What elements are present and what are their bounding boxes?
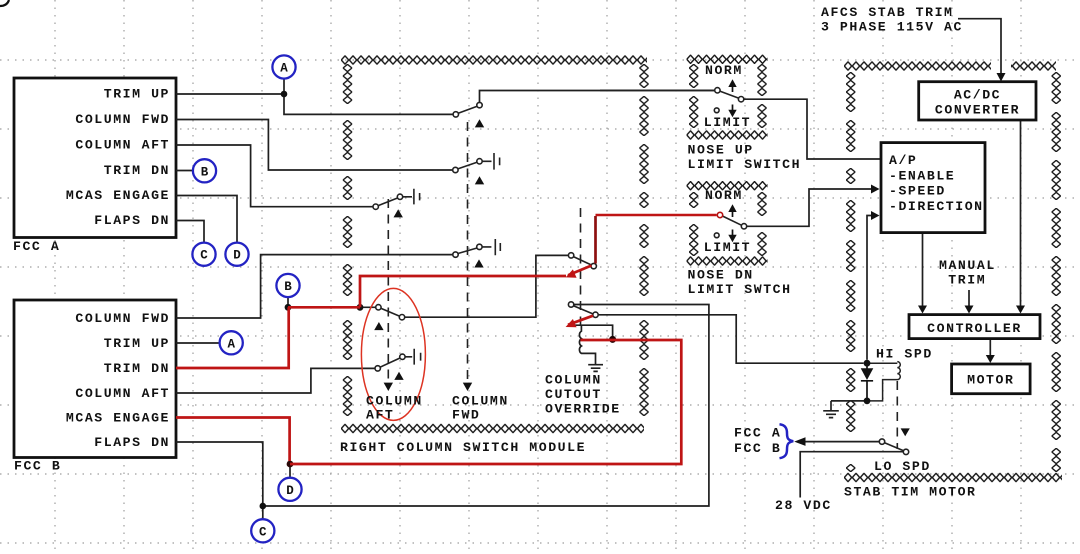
svg-text:D: D — [233, 249, 241, 263]
wire: FCC A COLUMN AFT down to switch row — [176, 145, 373, 207]
wire: nose-dn limit switch output to A/P SPEED arrow — [747, 189, 871, 226]
svg-text:AFT: AFT — [366, 408, 394, 423]
svg-text:COLUMN AFT: COLUMN AFT — [75, 138, 170, 153]
svg-text:MCAS ENGAGE: MCAS ENGAGE — [66, 188, 170, 203]
HI SPD junction top — [864, 360, 871, 367]
svg-text:3 PHASE 115V AC: 3 PHASE 115V AC — [821, 19, 963, 34]
red wire: node D to coil node — [290, 340, 681, 464]
svg-text:MANUAL: MANUAL — [939, 258, 996, 273]
svg-text:LO SPD: LO SPD — [874, 459, 931, 474]
norm arrow up (nose dn) — [732, 210, 734, 217]
svg-text:C: C — [259, 525, 267, 539]
wire: FCC A FLAPS DN down to node C — [176, 221, 204, 243]
switch S3 with contact — [373, 189, 420, 210]
node C (below fcc a) — [192, 243, 215, 266]
arrow into A/P SPEED — [871, 185, 880, 194]
svg-text:NOSE UP: NOSE UP — [688, 142, 754, 157]
svg-text:COLUMN FWD: COLUMN FWD — [75, 112, 170, 127]
link: column cutout override — [580, 208, 582, 332]
A/P box U1 — [881, 143, 985, 233]
FCC A labels — [66, 87, 170, 229]
svg-text:FCC B: FCC B — [14, 459, 61, 474]
junction at switch S5 input — [357, 304, 364, 311]
hatched border: right column switch module top edge — [341, 55, 647, 64]
node A junction — [281, 91, 288, 98]
node A (fcc b trim up) — [220, 331, 243, 354]
svg-text:NORM: NORM — [705, 188, 743, 203]
red wire: S5 junction up and right to cutout override B1 — [360, 276, 566, 307]
wire: node C stub — [262, 506, 264, 519]
red arrowhead at B1 blade — [566, 269, 577, 277]
switch S6 with contact — [375, 349, 421, 371]
pawl triangle S5 — [374, 322, 383, 330]
svg-text:CUTOUT: CUTOUT — [545, 387, 602, 402]
svg-text:COLUMN: COLUMN — [452, 393, 509, 408]
svg-text:28 VDC: 28 VDC — [775, 498, 832, 513]
svg-text:TRIM DN: TRIM DN — [104, 163, 170, 178]
wire: FCC B COLUMN FWD up to switch row — [176, 255, 453, 318]
node B junction — [285, 304, 292, 311]
svg-text:OVERRIDE: OVERRIDE — [545, 401, 621, 416]
wire: node B2 stub — [287, 297, 289, 307]
wire: cutout override B2 wiper bracket to coil node — [570, 325, 613, 339]
wire: FCC B COLUMN AFT up to switch row — [176, 368, 375, 393]
arrow into A/P DIRECTION — [871, 211, 880, 220]
arrow into AC/DC — [997, 73, 1006, 82]
corner artifact arc top-left — [0, 0, 9, 6]
nose up limit switch — [600, 88, 744, 113]
svg-text:MOTOR: MOTOR — [967, 372, 1014, 387]
hatched border: stab trim motor module top edge — [844, 61, 1056, 70]
svg-text:-SPEED: -SPEED — [889, 184, 946, 199]
hatched border: right column switch module left edge — [343, 64, 352, 416]
red wire: FCC B TRIM DN up to node B — [176, 307, 289, 368]
wire: nose-up limit switch output to A/P box — [744, 99, 881, 159]
norm arrow up (nose up) — [732, 85, 734, 92]
wire: node A stub — [283, 79, 285, 94]
arrow to brace (lo spd feed) — [794, 437, 805, 446]
FCC B box — [14, 300, 176, 458]
red ellipse highlight around column aft switches — [361, 288, 425, 420]
FCC A box — [14, 78, 176, 238]
node circles (blue letters) — [192, 55, 301, 542]
svg-text:COLUMN: COLUMN — [545, 372, 602, 387]
svg-text:MCAS ENGAGE: MCAS ENGAGE — [66, 410, 170, 425]
wire: HI SPD node up to A/P DIRECTION arrow — [867, 216, 871, 360]
node B (above fcc b) — [276, 274, 299, 297]
wire: long return line from node C junction to cutout override switch A2 — [263, 305, 709, 507]
node C (below fcc b) — [251, 519, 274, 542]
red wire: B1 wiper blade — [568, 266, 592, 276]
svg-text:CONTROLLER: CONTROLLER — [927, 321, 1022, 336]
link: column fwd switches — [467, 122, 469, 380]
actuation arrow: column fwd — [463, 383, 472, 391]
svg-text:B: B — [284, 280, 292, 294]
svg-text:A: A — [227, 337, 235, 351]
cutout override switch A2-B2 — [568, 302, 598, 318]
wire: AC/DC output down to controller — [1020, 120, 1022, 308]
limit arrow down (nose up) — [732, 105, 734, 111]
motor box M1 — [952, 364, 1031, 394]
ground (column cutout override) — [588, 365, 603, 372]
HI SPD junction bottom — [864, 398, 871, 405]
controller box — [909, 315, 1040, 339]
wire: cutout override B2 output to HI SPD node — [598, 315, 864, 363]
node D (below fcc b) — [278, 478, 301, 501]
hatched border: right column switch module bottom edge — [341, 424, 644, 433]
wire: FCC A TRIM DN stub to node B — [176, 170, 193, 172]
svg-text:NORM: NORM — [705, 63, 743, 78]
HI SPD relay coil — [870, 362, 900, 401]
node D junction — [287, 461, 294, 468]
node C junction — [260, 503, 267, 510]
node A (top) — [272, 55, 295, 78]
wire: 28 VDC riser to LO SPD throw — [800, 452, 903, 498]
red wire: FCC B MCAS ENGAGE down to node D — [176, 418, 290, 462]
ground (HI SPD) — [823, 401, 867, 418]
actuation arrow: column aft — [384, 383, 393, 391]
svg-text:LIMIT: LIMIT — [704, 115, 751, 130]
arrow into motor — [986, 355, 995, 363]
svg-text:FCC B: FCC B — [734, 441, 781, 456]
svg-text:TRIM UP: TRIM UP — [104, 87, 170, 102]
svg-text:FLAPS DN: FLAPS DN — [94, 213, 170, 228]
actuation arrow: lo spd — [901, 428, 910, 436]
svg-text:FWD: FWD — [452, 408, 480, 423]
svg-text:A: A — [280, 62, 288, 76]
hatched border: stab trim motor module right edge — [1052, 72, 1061, 472]
wire: switch1 output up and right to nose-up limit switch — [480, 91, 715, 103]
LO SPD switch — [879, 439, 908, 455]
wire: node D stub — [289, 464, 291, 478]
svg-text:-ENABLE: -ENABLE — [889, 168, 955, 183]
pawl triangle S3 — [394, 209, 403, 217]
svg-text:COLUMN FWD: COLUMN FWD — [75, 311, 170, 326]
pawl triangle S6 — [394, 372, 403, 380]
pawl triangle S1 — [475, 119, 484, 127]
wire: FCC B FLAPS DN down to node C junction — [176, 442, 263, 506]
svg-text:-DIRECTION: -DIRECTION — [889, 199, 984, 214]
pawl triangle S2 — [475, 176, 484, 184]
wire: A/P output down to controller — [922, 233, 924, 308]
wire: FCC B TRIM UP stub to node A — [176, 342, 219, 344]
svg-text:COLUMN AFT: COLUMN AFT — [75, 386, 170, 401]
svg-text:TRIM: TRIM — [948, 273, 986, 288]
nose dn limit switch — [714, 212, 746, 237]
svg-text:AC/DC: AC/DC — [954, 88, 1001, 103]
svg-text:CONVERTER: CONVERTER — [935, 103, 1020, 118]
switch S2 with contact — [453, 153, 500, 173]
red arrowhead at B2 blade — [566, 319, 577, 327]
node D (below fcc a) — [225, 243, 248, 266]
cutout override switch A1-B1 — [568, 253, 596, 269]
dashed mechanical links — [388, 122, 897, 449]
svg-text:A/P: A/P — [889, 153, 917, 168]
svg-text:RIGHT COLUMN SWITCH MODULE: RIGHT COLUMN SWITCH MODULE — [340, 440, 586, 455]
wire: switch5 output to cutout override A1 — [405, 255, 569, 317]
svg-text:TRIM UP: TRIM UP — [104, 336, 170, 351]
svg-text:C: C — [200, 249, 208, 263]
switch S1 (trim up / column fwd row) — [453, 102, 482, 117]
svg-text:B: B — [201, 165, 209, 179]
wire: FCC A MCAS ENGAGE down to node D — [176, 196, 237, 243]
wire: manual trim down to controller — [968, 290, 970, 308]
hatched border: stab trim motor module left edge — [846, 72, 855, 472]
svg-text:HI SPD: HI SPD — [876, 346, 933, 361]
wire: FCC A COLUMN FWD down to trim-up-A switch row — [176, 120, 453, 171]
svg-text:TRIM DN: TRIM DN — [104, 361, 170, 376]
hatched box: nose dn limit switch — [687, 181, 768, 190]
link: column aft switches — [387, 199, 389, 380]
FCC B labels — [66, 311, 170, 450]
svg-text:FCC A: FCC A — [734, 425, 781, 440]
wire: LO SPD pole to brace arrow — [798, 441, 879, 443]
svg-text:NOSE DN: NOSE DN — [688, 268, 754, 283]
red wire: B2 wiper blade — [568, 316, 593, 325]
hatched box: nose up limit switch — [687, 55, 768, 64]
svg-text:AFCS STAB TRIM: AFCS STAB TRIM — [821, 5, 954, 20]
wire: AFCS feed to AC/DC converter — [958, 19, 1001, 75]
svg-text:STAB TIM MOTOR: STAB TIM MOTOR — [844, 485, 977, 500]
junction at coil / mcas red node — [609, 336, 616, 343]
red highlighted wires — [176, 266, 681, 465]
switch S5 (column aft, actuated) — [362, 305, 405, 320]
link: stab trim motor speed relay — [896, 381, 898, 449]
svg-text:LIMIT SWTCH: LIMIT SWTCH — [688, 282, 792, 297]
node B (fcc a trim dn) — [193, 159, 216, 182]
blue brace — [780, 424, 794, 458]
AC/DC converter box — [919, 82, 1036, 120]
red wire: B1 up to nose dn limit switch (dark) — [594, 216, 597, 264]
svg-text:LIMIT SWITCH: LIMIT SWITCH — [688, 157, 802, 172]
red wire: node B to S5 junction — [288, 306, 360, 309]
pawl triangle S4 — [474, 259, 483, 267]
diode at HI SPD — [861, 363, 873, 401]
svg-text:FCC A: FCC A — [13, 239, 60, 254]
hatched border: right column switch module right edge — [639, 64, 648, 416]
svg-text:FLAPS DN: FLAPS DN — [94, 435, 170, 450]
svg-text:LIMIT: LIMIT — [704, 240, 751, 255]
limit arrow down (nose dn) — [732, 230, 734, 236]
wire: FCC A TRIM UP to node A junction then down to switch — [176, 94, 453, 114]
hatched border: stab trim motor module bottom edge — [844, 473, 1062, 482]
column cutout override coil — [579, 326, 595, 364]
switch S4 with contact — [453, 239, 501, 257]
wire: controller to motor — [989, 339, 991, 358]
svg-text:D: D — [286, 484, 294, 498]
arrows into controller — [918, 306, 927, 314]
svg-text:COLUMN: COLUMN — [366, 393, 423, 408]
